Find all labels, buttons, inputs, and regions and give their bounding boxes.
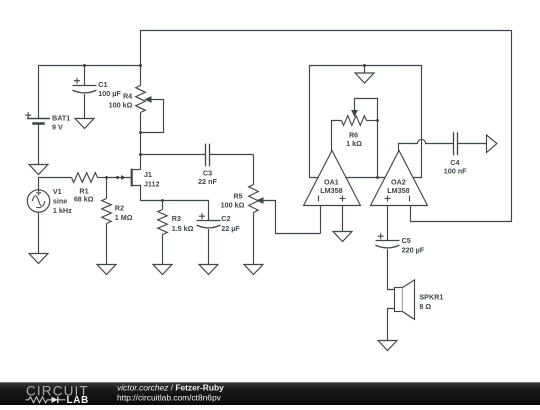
node: R6 right junction (376, 119, 379, 122)
resistor R3 1.5k (162, 201, 164, 210)
svg-text:1 kΩ: 1 kΩ (346, 139, 362, 148)
node: C1 top junction (83, 64, 86, 67)
wire: drain lead (133, 169, 141, 171)
svg-text:100 µF: 100 µF (98, 89, 121, 98)
wire: OA2 output with hop over ground-rail drop (399, 139, 454, 151)
wire: R5 wiper to OA1 inverting input (262, 201, 321, 234)
ground: below C1 (75, 119, 94, 129)
svg-text:8 Ω: 8 Ω (419, 302, 431, 311)
svg-text:LAB: LAB (67, 395, 90, 405)
svg-text:C5: C5 (402, 236, 411, 245)
wire: R6 wiper loop to right terminal (355, 99, 378, 121)
svg-text:100 kΩ: 100 kΩ (221, 201, 245, 210)
wire: R6 node down to op-amp V+ rail (377, 121, 379, 178)
wire: OA1 output up to R6 (332, 121, 342, 152)
ground: below OA1 +in (333, 232, 352, 242)
wire: supply rail to BAT1/C1/R4 (39, 66, 141, 119)
svg-text:victor.corchez / Fetzer-Ruby: victor.corchez / Fetzer-Ruby (117, 382, 224, 392)
wire: BAT1 negative lead (38, 124, 40, 165)
svg-text:C3: C3 (203, 168, 212, 177)
svg-text:SPKR1: SPKR1 (419, 292, 443, 301)
node: R4 bottom junction (139, 131, 142, 134)
node: output terminal flag (487, 135, 497, 153)
wire: V1 top to R1 (39, 178, 72, 190)
wire: gate from R1/R2 node (107, 177, 131, 179)
svg-text:OA2: OA2 (391, 177, 406, 186)
ground: op-amp supply rail (364, 66, 366, 74)
ground: below SPKR1 (378, 341, 397, 351)
node: V+ rail junction (376, 176, 379, 179)
svg-text:LM358: LM358 (387, 186, 409, 195)
ground: below V1 (29, 254, 48, 264)
wire: OA2 non-inverting input pin down to C5 (387, 206, 389, 241)
speaker SPKR1 (395, 288, 403, 312)
wire: OA1 non-inverting input pin to ground (342, 206, 344, 232)
capacitor C5 220uF (376, 240, 400, 242)
svg-text:22 nF: 22 nF (198, 177, 217, 186)
ground: below R3 (153, 265, 172, 275)
svg-text:J112: J112 (144, 179, 160, 188)
svg-text:C1: C1 (98, 80, 107, 89)
svg-text:9 V: 9 V (52, 123, 63, 132)
ground: below C2 (199, 265, 218, 275)
svg-text:100 kΩ: 100 kΩ (109, 101, 133, 110)
ground: below BAT1 (29, 165, 48, 175)
transistor J1 J112 JFET (131, 169, 133, 187)
svg-text:J1: J1 (144, 170, 152, 179)
svg-text:C2: C2 (221, 214, 230, 223)
wire: V1 bottom (38, 212, 40, 253)
capacitor C3 22nF (141, 154, 206, 156)
svg-text:OA1: OA1 (324, 177, 339, 186)
wire: +9V loop top rail to OA2 inverting input (141, 31, 512, 222)
svg-text:1 kHz: 1 kHz (53, 206, 72, 215)
node: ground rail junction (363, 64, 366, 67)
resistor R1 68k (72, 173, 98, 183)
svg-text:1 MΩ: 1 MΩ (115, 213, 133, 222)
wire: R4 bottom to JFET drain (140, 113, 142, 170)
svg-text:BAT1: BAT1 (52, 114, 70, 123)
resistor R4 100k pot (136, 86, 146, 113)
wire: speaker bottom to ground (388, 309, 395, 341)
node: R3 top junction (161, 199, 164, 202)
wire: R4 wiper loop (141, 100, 164, 133)
battery BAT1 (27, 118, 50, 120)
svg-text:R2: R2 (115, 204, 124, 213)
ground: below R2 (97, 265, 116, 275)
svg-text:100 nF: 100 nF (444, 166, 467, 175)
svg-text:R5: R5 (233, 191, 242, 200)
svg-text:1.5 kΩ: 1.5 kΩ (172, 224, 194, 233)
svg-text:68 kΩ: 68 kΩ (74, 195, 94, 204)
wire: source lead down to C2 (133, 186, 209, 221)
node: gate/R2 junction (105, 176, 108, 179)
capacitor C4 100nF (454, 132, 458, 155)
resistor R6 1k pot (342, 116, 367, 126)
svg-text:R3: R3 (172, 214, 181, 223)
resistor R5 100k pot (253, 155, 255, 185)
capacitor C1 100uF (84, 66, 86, 86)
svg-text:R4: R4 (123, 92, 132, 101)
ground: below R5 (244, 265, 263, 275)
node: C3 tap junction (139, 153, 142, 156)
svg-text:sine: sine (53, 197, 67, 206)
wire: OA1 left power pin up over to OA2 right power pin (ground rail) (310, 66, 422, 178)
op-amp OA1 LM358 (304, 151, 361, 206)
wire: op-amp V+ rail between OA1/OA2 (346, 177, 385, 179)
wire: OA1 inverting input pin (320, 206, 322, 234)
source V1 sine (27, 190, 49, 212)
svg-text:LM358: LM358 (320, 186, 342, 195)
resistor R2 1M (106, 178, 108, 199)
node: R4 column junction (139, 64, 142, 67)
svg-text:220 µF: 220 µF (402, 245, 425, 254)
capacitor C2 22uF (197, 220, 221, 222)
op-amp OA2 LM358 (371, 151, 428, 206)
svg-text:V1: V1 (53, 187, 62, 196)
svg-text:22 µF: 22 µF (221, 224, 240, 233)
svg-text:http://circuitlab.com/ct8n6pv: http://circuitlab.com/ct8n6pv (117, 393, 222, 403)
